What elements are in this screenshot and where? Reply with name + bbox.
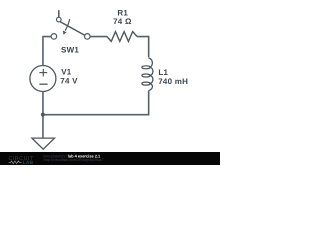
switch SW1 top throw terminal: [57, 17, 62, 22]
wire from V1 bottom to ground: [42, 92, 44, 139]
switch SW1 common terminal: [85, 34, 91, 40]
voltage source V1: [30, 66, 56, 92]
switch SW1 actuation arrow: [63, 19, 70, 35]
CircuitLab logo: [8, 156, 34, 166]
wire from resistor to inductor top: [137, 37, 149, 58]
svg-text:SW1: SW1: [61, 45, 79, 54]
footer bar: [0, 152, 220, 165]
wire open stub above switch: [58, 10, 60, 17]
svg-text:V1: V1: [61, 68, 72, 77]
ground: [32, 138, 55, 149]
svg-text:740 mH: 740 mH: [158, 77, 188, 86]
svg-text:L1: L1: [158, 68, 168, 77]
junction node: [41, 113, 45, 117]
svg-text:74 Ω: 74 Ω: [113, 17, 132, 26]
inductor L1: [142, 58, 153, 91]
wire from inductor bottom to bottom rail and left to junction: [43, 91, 149, 115]
svg-text:LAB: LAB: [23, 160, 34, 165]
wire from left throw down-left to V1 top: [43, 37, 51, 66]
resistor R1: [107, 32, 137, 42]
wire from switch common to resistor R1: [90, 36, 107, 38]
switch SW1 blade: [60, 22, 84, 35]
switch SW1 left throw terminal: [51, 34, 57, 40]
svg-text:http://circuitlab.com/c/hwqy4p: http://circuitlab.com/c/hwqy4p28uz7: [44, 158, 104, 162]
svg-text:74 V: 74 V: [60, 76, 78, 85]
